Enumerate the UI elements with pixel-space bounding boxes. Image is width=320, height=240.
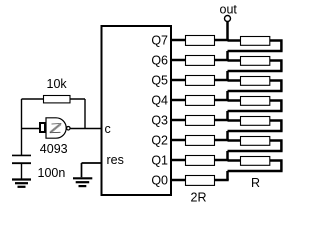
wire ladder stage node4: R4 loop to node3 (228, 99, 283, 120)
resistor 2R (Q6) (186, 56, 215, 66)
wire ladder stage node3: R3 loop to node2 (228, 119, 283, 140)
ground symbol (capacitor) (12, 180, 31, 187)
wire 2R Q5 to node5 (215, 79, 229, 82)
wire Q4 pin stub (172, 99, 185, 102)
svg-text:4093: 4093 (40, 142, 68, 156)
resistor R (node4-node3) (241, 97, 270, 106)
svg-text:res: res (107, 153, 124, 167)
svg-text:Q0: Q0 (151, 173, 168, 187)
resistor 2R (Q3) (186, 116, 215, 126)
gate U2 4093 input box (tied inputs) (40, 123, 45, 132)
wire ladder stage node2: R2 loop to node1 (228, 139, 283, 160)
resistor 2R (Q5) (186, 76, 215, 86)
capacitor C1 plate top (12, 154, 31, 156)
svg-text:R: R (251, 176, 260, 190)
svg-text:100n: 100n (38, 166, 66, 180)
resistor 10k body (44, 96, 71, 103)
wire 2R Q0 to node0 (215, 179, 229, 182)
wire ladder stage node6: R6 loop to node5 (228, 59, 283, 80)
capacitor C1 plate bottom (12, 162, 31, 164)
wire 2R Q3 to node3 (215, 119, 229, 122)
wire 2R Q6 to node6 (215, 59, 229, 62)
wire Q3 pin stub (172, 119, 185, 122)
gate U2 4093 body (46, 118, 66, 138)
svg-text:Q7: Q7 (151, 33, 168, 47)
wire 2R Q4 to node4 (215, 99, 229, 102)
wire Q7 pin stub (172, 39, 185, 42)
wire ladder stage node7: R7 loop to node6 (228, 39, 283, 60)
wire cap bottom to ground (21, 163, 23, 178)
wire 2R Q2 to node2 (215, 139, 229, 142)
wire gate input stub (22, 128, 41, 130)
wire Q1 pin stub (172, 159, 185, 162)
wire gate output to c pin (70, 128, 101, 130)
svg-text:Q3: Q3 (151, 113, 168, 127)
svg-text:out: out (220, 3, 238, 17)
svg-text:Q2: Q2 (151, 133, 168, 147)
wire Q6 pin stub (172, 59, 185, 62)
resistor R (node2-node1) (241, 137, 270, 146)
resistor 2R (Q0) (186, 176, 215, 186)
resistor 2R (Q4) (186, 96, 215, 106)
resistor 2R (Q7) (186, 36, 215, 46)
resistor R (node1-node0) (241, 157, 270, 166)
ground symbol (res pin) (73, 178, 92, 186)
resistor 2R (Q1) (186, 156, 215, 166)
counter IC U1 box (102, 26, 172, 195)
wire ladder stage node5: R5 loop to node4 (228, 79, 283, 100)
svg-text:2R: 2R (191, 190, 207, 204)
resistor R (node3-node2) (241, 117, 270, 126)
resistor R (node6-node5) (241, 57, 270, 66)
wire 10k right lead down to gate output (70, 99, 85, 129)
resistor 2R (Q2) (186, 136, 215, 146)
wire 10k left lead and feedback down to gate input / cap (22, 99, 44, 155)
svg-text:Q4: Q4 (151, 93, 168, 107)
gate U2 output bubble (67, 126, 71, 130)
svg-text:Q1: Q1 (151, 153, 168, 167)
resistor R (node5-node4) (241, 77, 270, 86)
wire Q5 pin stub (172, 79, 185, 82)
gate U2 schmitt hysteresis symbol (50, 124, 61, 133)
svg-text:Q6: Q6 (151, 53, 168, 67)
wire Q2 pin stub (172, 139, 185, 142)
resistor R (node7-node6) (241, 37, 270, 46)
wire 2R Q1 to node1 (215, 159, 229, 162)
svg-text:c: c (105, 122, 111, 136)
svg-text:10k: 10k (47, 77, 68, 91)
out terminal circle (225, 16, 231, 22)
wire ladder stage node1: R1 loop to node0 (228, 159, 283, 180)
svg-text:Q5: Q5 (151, 73, 168, 87)
wire 2R Q7 to node7 (215, 39, 229, 42)
wire res pin to ground (82, 163, 102, 177)
wire Q0 pin stub (172, 179, 185, 182)
wire out circle down to node7 (226, 22, 229, 42)
